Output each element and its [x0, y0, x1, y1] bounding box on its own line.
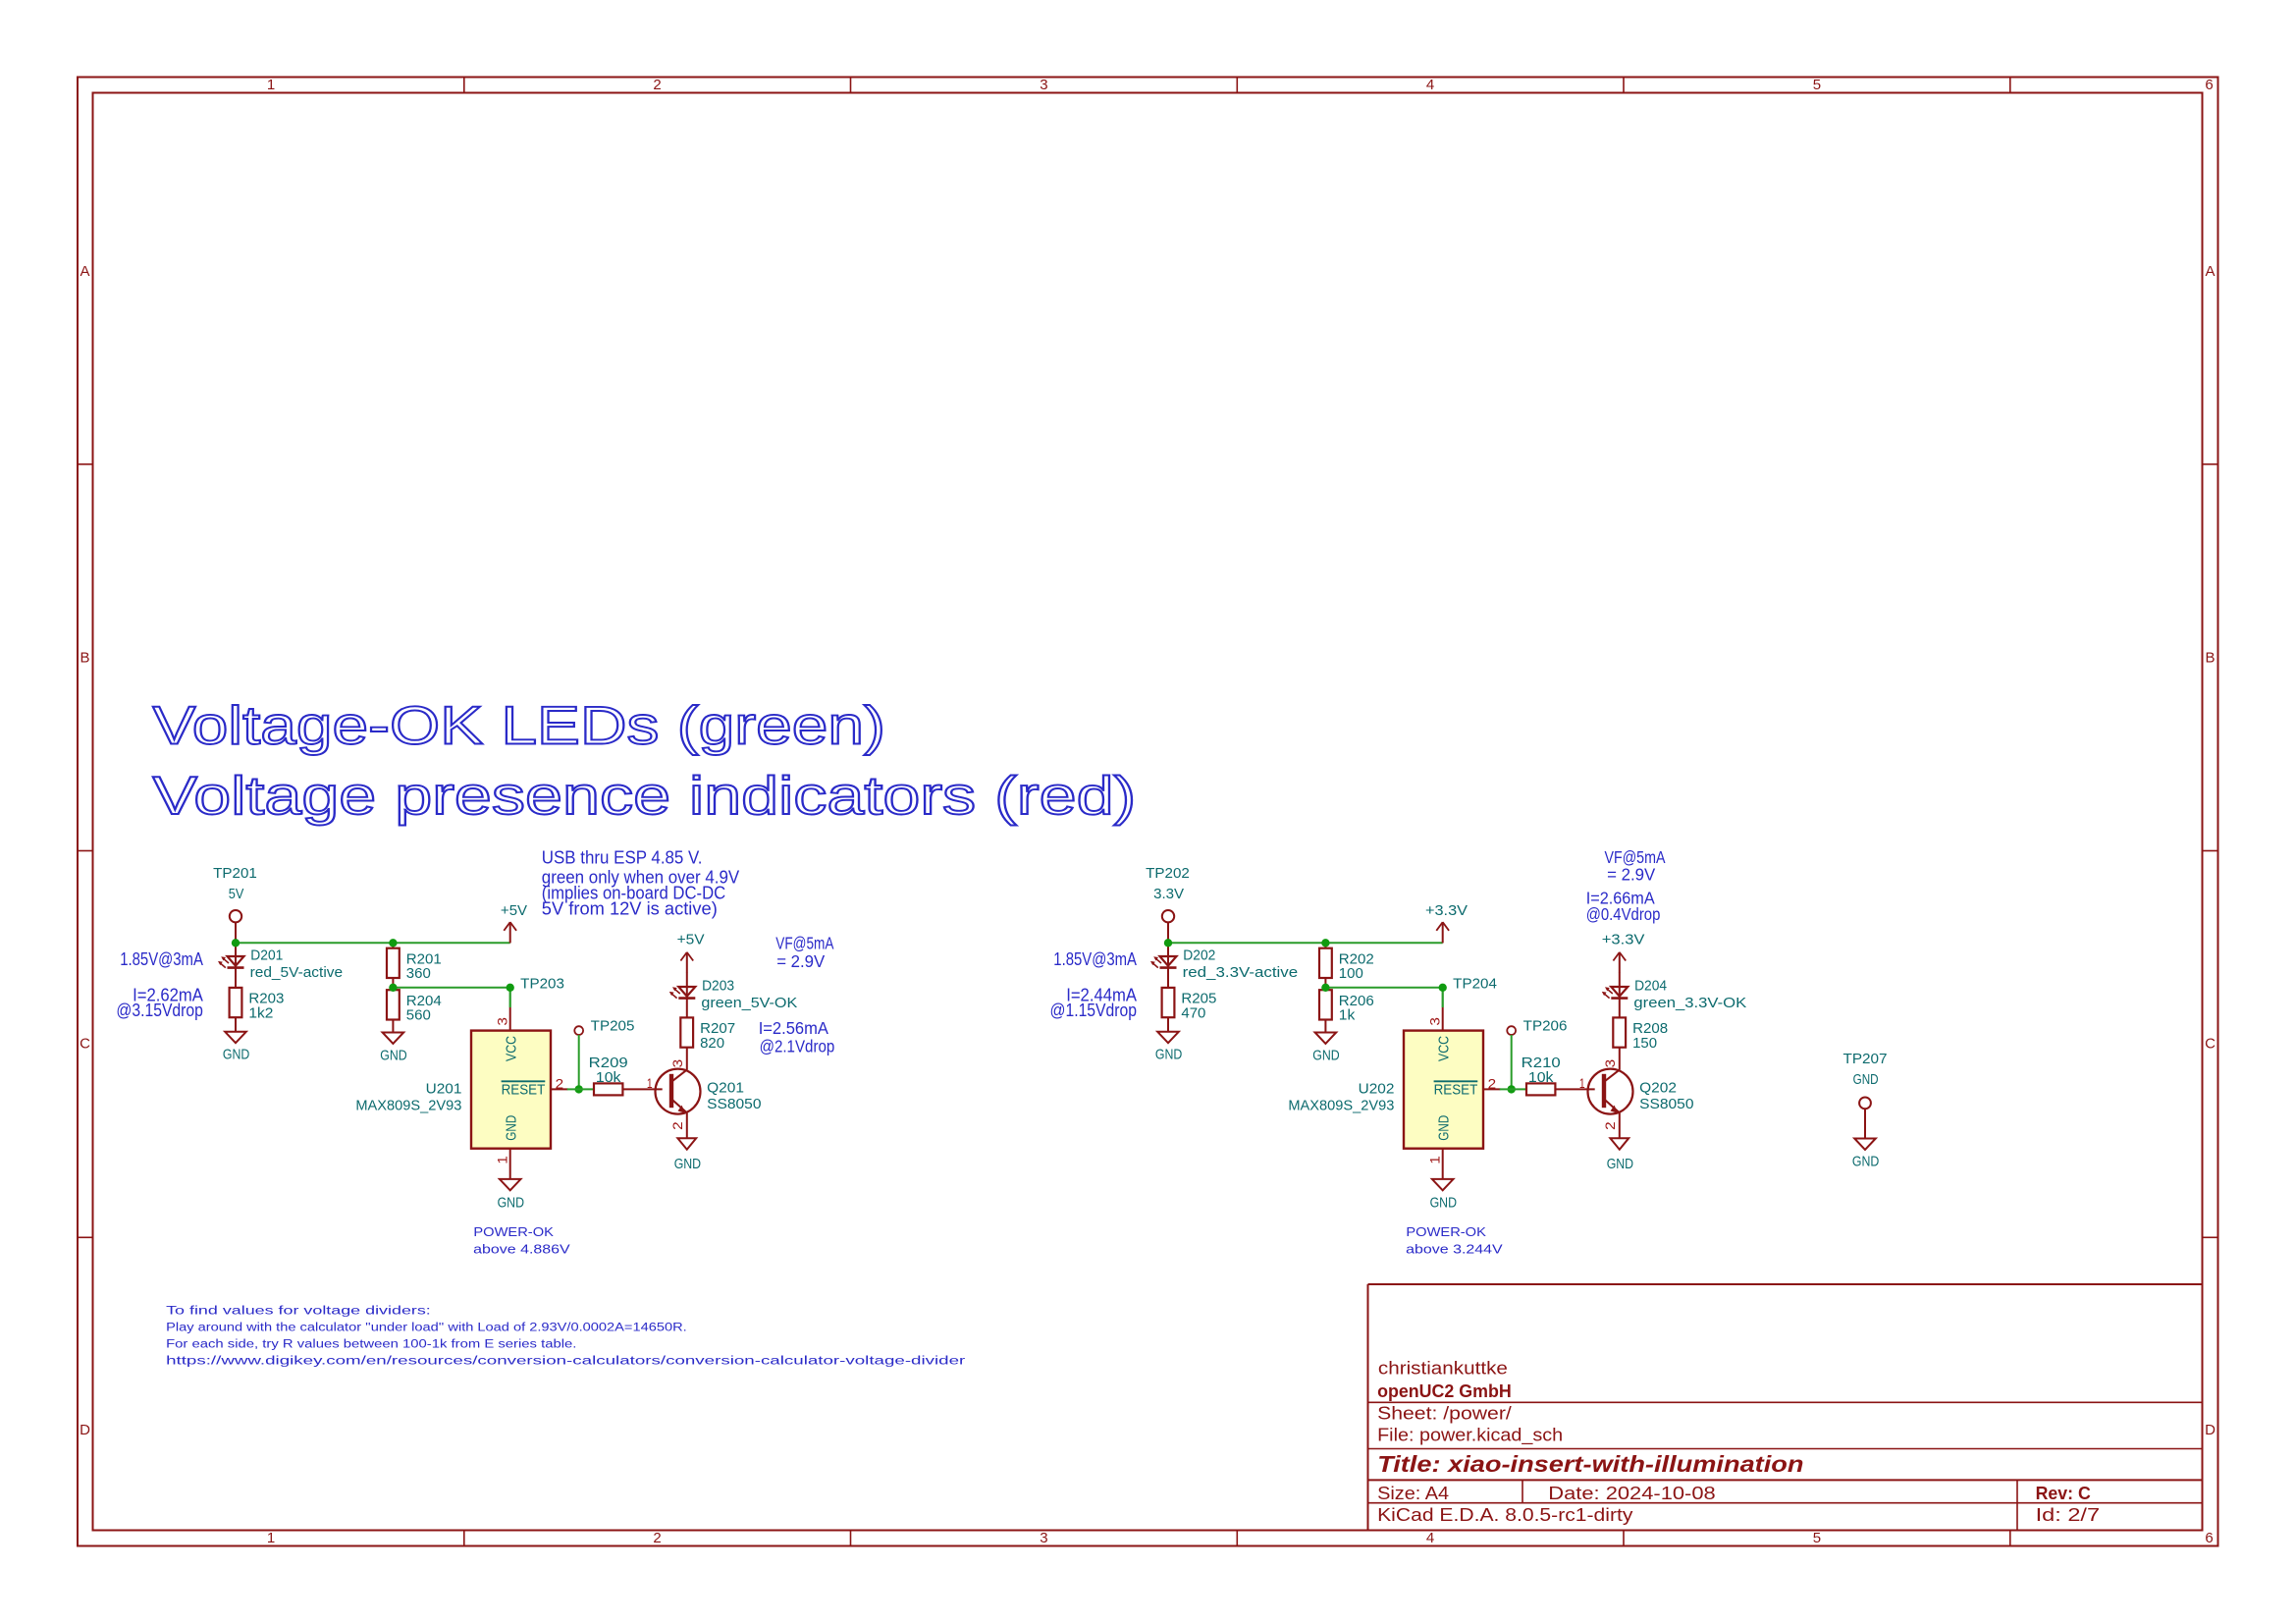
svg-text:RESET: RESET [502, 1082, 546, 1098]
svg-text:1.85V@3mA: 1.85V@3mA [120, 949, 203, 969]
frame row labels [80, 263, 2216, 1438]
wire TP vertical [578, 1035, 580, 1089]
svg-text:470: 470 [1181, 1005, 1205, 1021]
svg-text:POWER-OK: POWER-OK [473, 1225, 554, 1239]
svg-text:GND: GND [1436, 1115, 1452, 1141]
resistor R205 [1162, 988, 1217, 1022]
svg-text:1k2: 1k2 [248, 1005, 273, 1021]
svg-text:= 2.9V: = 2.9V [1607, 864, 1656, 884]
wire RESET net [567, 1088, 594, 1090]
svg-text:R202: R202 [1339, 951, 1374, 967]
wire divider mid horizontal [1325, 988, 1442, 1007]
svg-text:GND: GND [1852, 1154, 1879, 1169]
resistor R208 [1613, 1017, 1668, 1052]
svg-text:Date: 2024-10-08: Date: 2024-10-08 [1548, 1484, 1715, 1503]
svg-text:KiCad E.D.A. 8.0.5-rc1-dirty: KiCad E.D.A. 8.0.5-rc1-dirty [1377, 1505, 1632, 1525]
svg-text:Voltage-OK LEDs (green): Voltage-OK LEDs (green) [153, 695, 885, 756]
svg-text:R201: R201 [406, 951, 442, 967]
sheet heading text [153, 695, 1137, 826]
resistor R204 [387, 990, 442, 1023]
power symbol +5V LED column [677, 933, 705, 973]
LED D201 [218, 948, 343, 982]
wire [1619, 973, 1621, 1018]
svg-text:TP201: TP201 [213, 866, 257, 882]
svg-text:GND: GND [498, 1196, 524, 1212]
svg-text:TP204: TP204 [1453, 976, 1497, 992]
ground [1312, 1033, 1339, 1064]
title block frame [1368, 1284, 2203, 1531]
svg-text:red_3.3V-active: red_3.3V-active [1183, 965, 1299, 981]
svg-text:3: 3 [1040, 1530, 1047, 1546]
testpoint TP201 [213, 866, 257, 943]
ground [1607, 1138, 1633, 1172]
transistor Q201 [647, 1059, 762, 1130]
LED D204 [1602, 979, 1747, 1011]
svg-text:1: 1 [1428, 1156, 1443, 1164]
wire TP vertical [1511, 1035, 1513, 1089]
svg-text:MAX809S_2V93: MAX809S_2V93 [1288, 1099, 1394, 1114]
svg-text:560: 560 [406, 1008, 431, 1024]
junction at TP [1164, 939, 1172, 947]
svg-text:SS8050: SS8050 [707, 1097, 761, 1112]
svg-text:green_5V-OK: green_5V-OK [701, 996, 797, 1011]
svg-text:R207: R207 [700, 1021, 735, 1037]
svg-text:GND: GND [380, 1048, 406, 1063]
svg-text:VCC: VCC [504, 1036, 519, 1061]
svg-text:4: 4 [1426, 1530, 1434, 1546]
svg-text:For each side, try R values be: For each side, try R values between 100-… [166, 1339, 576, 1351]
svg-text:GND: GND [223, 1048, 249, 1063]
resistor R206 [1319, 990, 1374, 1023]
svg-text:TP207: TP207 [1843, 1052, 1888, 1067]
note LED voltage right [1050, 949, 1138, 1020]
wire [1442, 942, 1444, 944]
wire collector [686, 1048, 688, 1070]
power symbol +3.3V LED column [1602, 933, 1645, 973]
svg-text:10k: 10k [596, 1070, 621, 1086]
wire [235, 943, 237, 988]
svg-text:Sheet: /power/: Sheet: /power/ [1377, 1404, 1512, 1424]
junction at VCC corner [1439, 984, 1447, 992]
svg-text:+5V: +5V [677, 933, 705, 948]
svg-text:R208: R208 [1632, 1021, 1668, 1037]
wire [686, 973, 688, 1018]
svg-text:Q201: Q201 [707, 1081, 744, 1097]
svg-text:5: 5 [1813, 77, 1821, 93]
svg-text:MAX809S_2V93: MAX809S_2V93 [355, 1099, 461, 1114]
wire 5V net horizontal [1168, 942, 1443, 944]
ground [498, 1179, 524, 1212]
wire RESET net [1500, 1088, 1526, 1090]
svg-text:5V from 12V is active): 5V from 12V is active) [542, 899, 718, 919]
svg-text:RESET: RESET [1434, 1082, 1478, 1098]
svg-text:TP202: TP202 [1146, 866, 1190, 882]
svg-text:D201: D201 [250, 948, 283, 964]
resistor R210 [1522, 1056, 1561, 1096]
svg-text:D: D [80, 1422, 90, 1438]
junction RESET node [1508, 1085, 1516, 1093]
note USB thru ESP [542, 847, 739, 918]
wire [1324, 1020, 1326, 1033]
svg-text:10k: 10k [1528, 1070, 1554, 1086]
svg-text:3: 3 [1040, 77, 1047, 93]
svg-text:R205: R205 [1181, 992, 1216, 1007]
svg-text:820: 820 [700, 1036, 724, 1052]
svg-text:2: 2 [653, 77, 661, 93]
junction divider mid [1321, 984, 1329, 992]
svg-text:3: 3 [1428, 1017, 1443, 1026]
svg-text:D204: D204 [1634, 979, 1667, 995]
svg-text:B: B [2205, 650, 2215, 667]
ground [380, 1033, 406, 1064]
svg-text:D203: D203 [702, 979, 734, 995]
ground [1852, 1139, 1879, 1170]
svg-text:R210: R210 [1522, 1056, 1561, 1071]
svg-text:+3.3V: +3.3V [1602, 933, 1645, 948]
svg-text:GND: GND [674, 1157, 701, 1172]
svg-text:3: 3 [670, 1059, 685, 1068]
svg-text:GND: GND [1430, 1196, 1457, 1212]
wire [509, 942, 511, 944]
power symbol +5V [501, 903, 527, 943]
wire emitter [686, 1112, 688, 1138]
svg-text:@2.1Vdrop: @2.1Vdrop [760, 1037, 835, 1056]
svg-text:@3.15Vdrop: @3.15Vdrop [116, 1001, 203, 1020]
svg-text:GND: GND [1853, 1072, 1879, 1088]
wire emitter [1619, 1112, 1621, 1138]
svg-text:above 3.244V: above 3.244V [1406, 1242, 1503, 1256]
svg-text:D: D [2205, 1422, 2216, 1438]
resistor R207 [680, 1017, 735, 1052]
svg-text:POWER-OK: POWER-OK [1406, 1225, 1486, 1239]
resistor R201 [387, 948, 442, 983]
svg-text:6: 6 [2205, 1530, 2213, 1546]
resistor R202 [1319, 948, 1374, 983]
svg-text:SS8050: SS8050 [1639, 1097, 1693, 1112]
svg-text:VCC: VCC [1436, 1036, 1452, 1061]
svg-text:Id: 2/7: Id: 2/7 [2036, 1505, 2101, 1525]
svg-text:Size: A4: Size: A4 [1377, 1484, 1449, 1503]
svg-text:R209: R209 [589, 1056, 628, 1071]
svg-text:Play around with the calculato: Play around with the calculator ''under … [166, 1322, 687, 1333]
svg-text:360: 360 [406, 966, 431, 982]
svg-text:3.3V: 3.3V [1153, 887, 1184, 902]
wire pin3 stub [509, 988, 511, 1007]
transistor Q202 [1579, 1059, 1694, 1130]
svg-text:Q202: Q202 [1639, 1081, 1677, 1097]
svg-text:@0.4Vdrop: @0.4Vdrop [1586, 904, 1661, 924]
title block text [1377, 1359, 2100, 1525]
wire [1167, 1017, 1169, 1032]
testpoint TP207 [1843, 1052, 1888, 1139]
svg-text:150: 150 [1632, 1036, 1657, 1052]
IC U201 MAX809S [355, 1007, 567, 1179]
svg-text:R206: R206 [1339, 994, 1374, 1009]
svg-text:2: 2 [1488, 1076, 1497, 1091]
note VF right [1586, 847, 1666, 924]
svg-text:File: power.kicad_sch: File: power.kicad_sch [1377, 1425, 1563, 1445]
testpoint TP205 [574, 1018, 634, 1035]
ground [674, 1138, 701, 1172]
junction at VCC corner [507, 984, 514, 992]
svg-text:VF@5mA: VF@5mA [775, 934, 833, 953]
frame column labels [267, 77, 2214, 1546]
svg-text:I=2.56mA: I=2.56mA [759, 1018, 828, 1038]
svg-text:1: 1 [267, 1530, 275, 1546]
svg-text:TP203: TP203 [520, 976, 564, 992]
note LED voltage left [116, 949, 203, 1020]
svg-text:@1.15Vdrop: @1.15Vdrop [1050, 1001, 1138, 1020]
wire 5V net horizontal [236, 942, 510, 944]
svg-text:B: B [80, 650, 89, 667]
svg-text:C: C [80, 1035, 90, 1052]
wire [392, 943, 394, 988]
svg-text:red_5V-active: red_5V-active [250, 965, 344, 981]
wire pin3 stub [1442, 988, 1444, 1007]
wire [235, 1017, 237, 1032]
testpoint TP202 [1146, 866, 1190, 943]
svg-text:A: A [2205, 263, 2215, 280]
hier label TP203 [520, 976, 564, 992]
svg-text:2: 2 [1603, 1121, 1618, 1130]
svg-text:1.85V@3mA: 1.85V@3mA [1053, 949, 1137, 969]
svg-text:above 4.886V: above 4.886V [473, 1242, 570, 1256]
svg-text:GND: GND [504, 1115, 519, 1141]
svg-text:openUC2 GmbH: openUC2 GmbH [1377, 1381, 1512, 1401]
junction at R divider top [1321, 939, 1329, 947]
svg-text:Rev: C: Rev: C [2036, 1484, 2091, 1503]
svg-text:+3.3V: +3.3V [1425, 903, 1468, 919]
svg-text:USB thru ESP 4.85 V.: USB thru ESP 4.85 V. [542, 847, 703, 867]
power symbol +3.3V [1425, 903, 1468, 943]
resistor R209 [589, 1056, 628, 1096]
svg-text:1k: 1k [1339, 1008, 1356, 1024]
svg-text:6: 6 [2205, 77, 2213, 93]
svg-text:U202: U202 [1359, 1082, 1395, 1098]
svg-text:GND: GND [1312, 1048, 1339, 1063]
svg-text:1: 1 [647, 1076, 653, 1091]
frame row ticks [78, 464, 2218, 1238]
svg-text:5V: 5V [229, 887, 244, 902]
ground [223, 1032, 249, 1063]
junction divider mid [389, 984, 397, 992]
svg-text:R204: R204 [406, 994, 442, 1009]
svg-text:4: 4 [1426, 77, 1434, 93]
note POWER-OK [1406, 1225, 1503, 1256]
svg-text:2: 2 [653, 1530, 661, 1546]
svg-text:U201: U201 [426, 1082, 462, 1098]
svg-text:GND: GND [1155, 1048, 1182, 1063]
svg-text:TP205: TP205 [591, 1018, 635, 1034]
svg-text:A: A [80, 263, 89, 280]
svg-text:2: 2 [670, 1121, 685, 1130]
svg-text:Voltage presence indicators (r: Voltage presence indicators (red) [153, 765, 1137, 826]
LED D202 [1150, 948, 1298, 982]
svg-text:1: 1 [1579, 1076, 1585, 1091]
IC U202 MAX809S [1288, 1007, 1500, 1179]
ground [1430, 1179, 1457, 1212]
ground [1155, 1032, 1182, 1063]
svg-text:= 2.9V: = 2.9V [776, 951, 825, 971]
wire [392, 1020, 394, 1033]
svg-text:christiankuttke: christiankuttke [1378, 1359, 1508, 1379]
testpoint TP206 [1507, 1018, 1567, 1035]
svg-text:D202: D202 [1183, 948, 1215, 964]
junction at R divider top [389, 939, 397, 947]
svg-text:100: 100 [1339, 966, 1363, 982]
resistor R203 [230, 988, 285, 1022]
frame column ticks [464, 78, 2010, 1546]
svg-text:5: 5 [1813, 1530, 1821, 1546]
note POWER-OK [473, 1225, 570, 1256]
LED D203 [669, 979, 798, 1011]
note VF left [759, 934, 835, 1056]
svg-text:3: 3 [496, 1017, 510, 1026]
svg-text:TP206: TP206 [1523, 1018, 1568, 1034]
svg-text:3: 3 [1603, 1059, 1618, 1068]
wire [1324, 943, 1326, 988]
svg-text:2: 2 [556, 1076, 564, 1091]
svg-text:green_3.3V-OK: green_3.3V-OK [1633, 996, 1746, 1011]
wire [1167, 943, 1169, 988]
svg-text:https://www.digikey.com/en/res: https://www.digikey.com/en/resources/con… [166, 1356, 965, 1368]
svg-text:Title: xiao-insert-with-illumi: Title: xiao-insert-with-illumination [1377, 1451, 1803, 1477]
junction at TP [232, 939, 240, 947]
svg-text:To find values for voltage div: To find values for voltage dividers: [166, 1305, 431, 1317]
junction RESET node [575, 1085, 583, 1093]
wire base [1555, 1088, 1594, 1090]
svg-text:1: 1 [267, 77, 275, 93]
svg-text:1: 1 [496, 1156, 510, 1164]
svg-text:C: C [2205, 1035, 2216, 1052]
svg-text:GND: GND [1607, 1157, 1633, 1172]
wire base [622, 1088, 662, 1090]
hier label TP204 [1453, 976, 1497, 992]
svg-text:+5V: +5V [501, 903, 527, 919]
wire divider mid horizontal [393, 988, 509, 1007]
wire collector [1619, 1048, 1621, 1070]
note voltage divider hints [166, 1305, 965, 1367]
svg-text:R203: R203 [248, 992, 284, 1007]
